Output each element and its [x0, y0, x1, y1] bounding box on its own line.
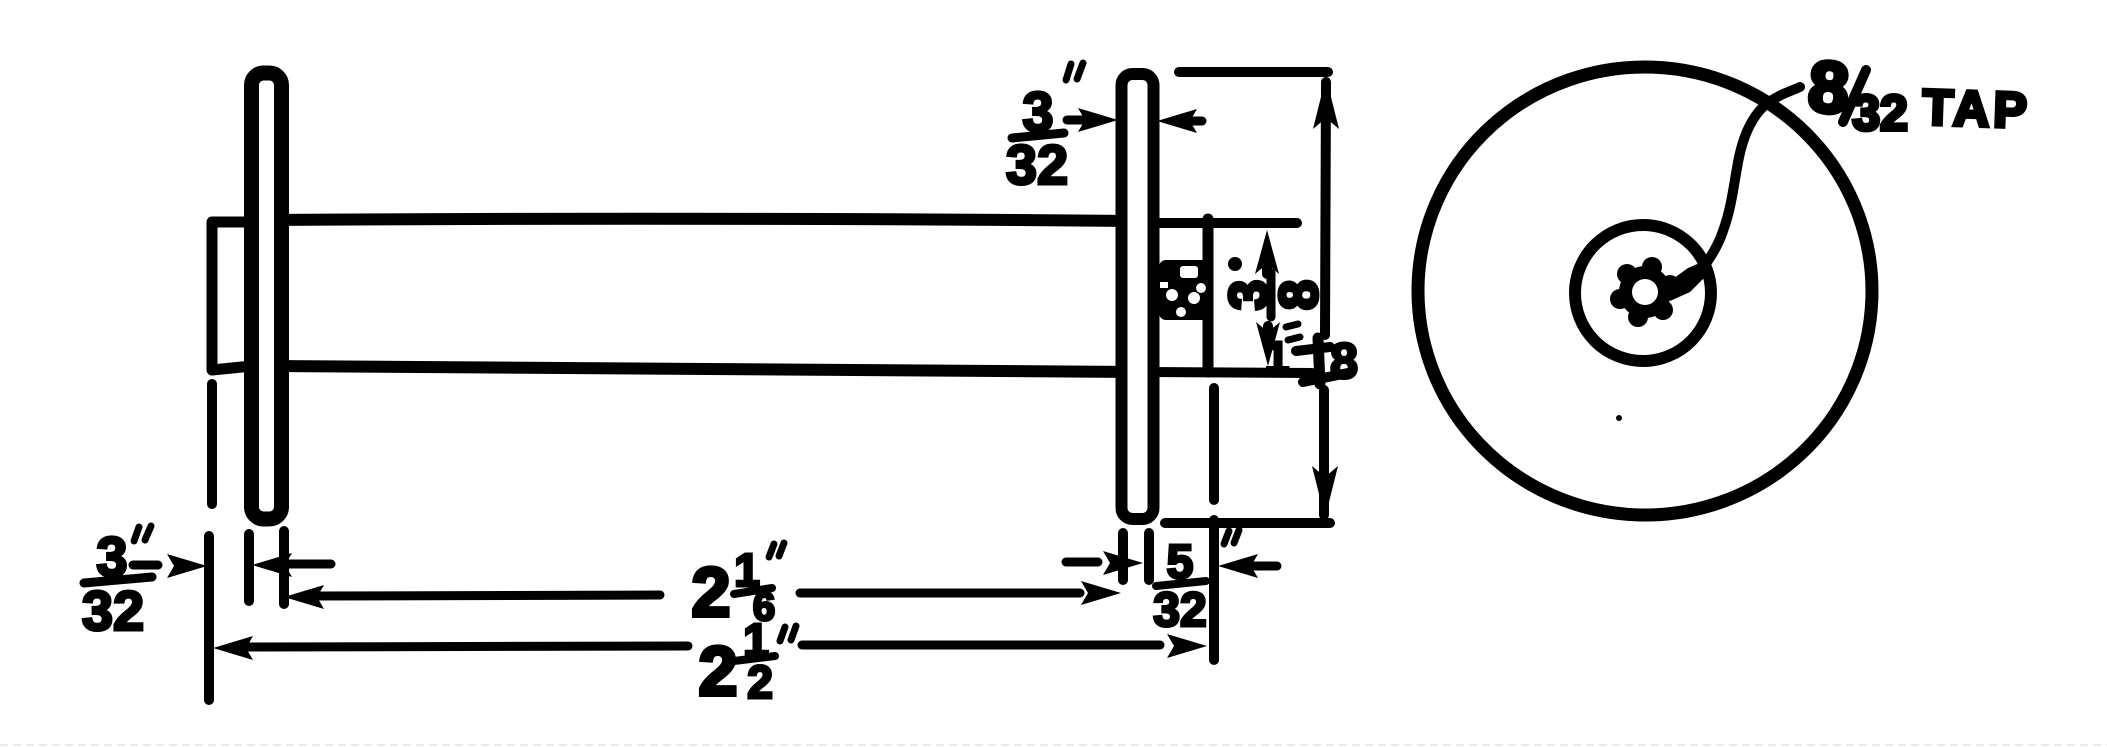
- end view: tapped hole (gear shape): [1610, 257, 1708, 327]
- extension line bottom (flange diameter): [1165, 518, 1330, 528]
- wire barrel top line: [272, 219, 1135, 221]
- ditto marks for 3/8: [1286, 324, 1300, 340]
- left flange: [252, 73, 282, 519]
- ink dot beside 3/8 dimension: [1228, 257, 1242, 271]
- faint page edge line at bottom: [0, 744, 2107, 746]
- svg-text:2: 2: [699, 632, 738, 710]
- set screw (knurled) in right hub: [1159, 260, 1208, 320]
- svg-text:TAP: TAP: [1922, 79, 2032, 139]
- right hub bottom edge + 3/8 bottom extension: [1150, 372, 1312, 373]
- left hub (boss) outline: [212, 222, 252, 370]
- svg-text:1: 1: [1265, 333, 1289, 382]
- dim line flange diameter (vertical): [1313, 77, 1339, 129]
- dim 5/32 arrows: [1066, 558, 1098, 567]
- extension line top (flange diameter): [1179, 67, 1328, 77]
- svg-text:32: 32: [82, 579, 144, 642]
- text 8/32 TAP: [1806, 47, 2032, 141]
- right hub (boss) top edge + 3/8 top extension: [1150, 218, 1297, 228]
- right flange: [1122, 74, 1154, 519]
- svg-text:32: 32: [1006, 133, 1068, 196]
- bottom extension line L1 (hub left face): [207, 384, 217, 504]
- dim 3/32 top: right arrow: [1157, 109, 1197, 133]
- svg-text:2: 2: [692, 553, 731, 631]
- svg-text:8: 8: [1269, 280, 1329, 310]
- end view: hub circle: [1575, 225, 1711, 361]
- wire barrel bottom line: [272, 366, 1135, 372]
- bottom extension line L3 (flange right face): [279, 531, 289, 604]
- bottom extension line L2 (flange left face): [244, 534, 254, 601]
- right hub right edge: [1203, 219, 1214, 372]
- small dot: [1616, 415, 1622, 421]
- dim 3/8 rotated text: [1219, 273, 1329, 317]
- svg-text:2: 2: [747, 656, 773, 708]
- bottom extension line R2 (right flange right face): [1144, 533, 1154, 580]
- end view: large circle (flange): [1410, 59, 1879, 523]
- dim 3/8 (hub dia): vertical arrows: [1255, 230, 1279, 274]
- dim 2 1/16 line: [284, 585, 324, 609]
- dim 3/32 top (right flange thickness): left arrow: [1067, 116, 1085, 125]
- bottom extension line R3 (right hub right face): [1209, 388, 1219, 500]
- bottom extension line R1 (right flange left face): [1118, 533, 1128, 580]
- dim 2 1/2 line: [213, 636, 253, 660]
- svg-text:32: 32: [1852, 85, 1908, 141]
- dim 3/32 left: arrows: [133, 561, 158, 570]
- svg-text:32: 32: [1153, 584, 1206, 637]
- leader line to tap label: [1701, 87, 1800, 270]
